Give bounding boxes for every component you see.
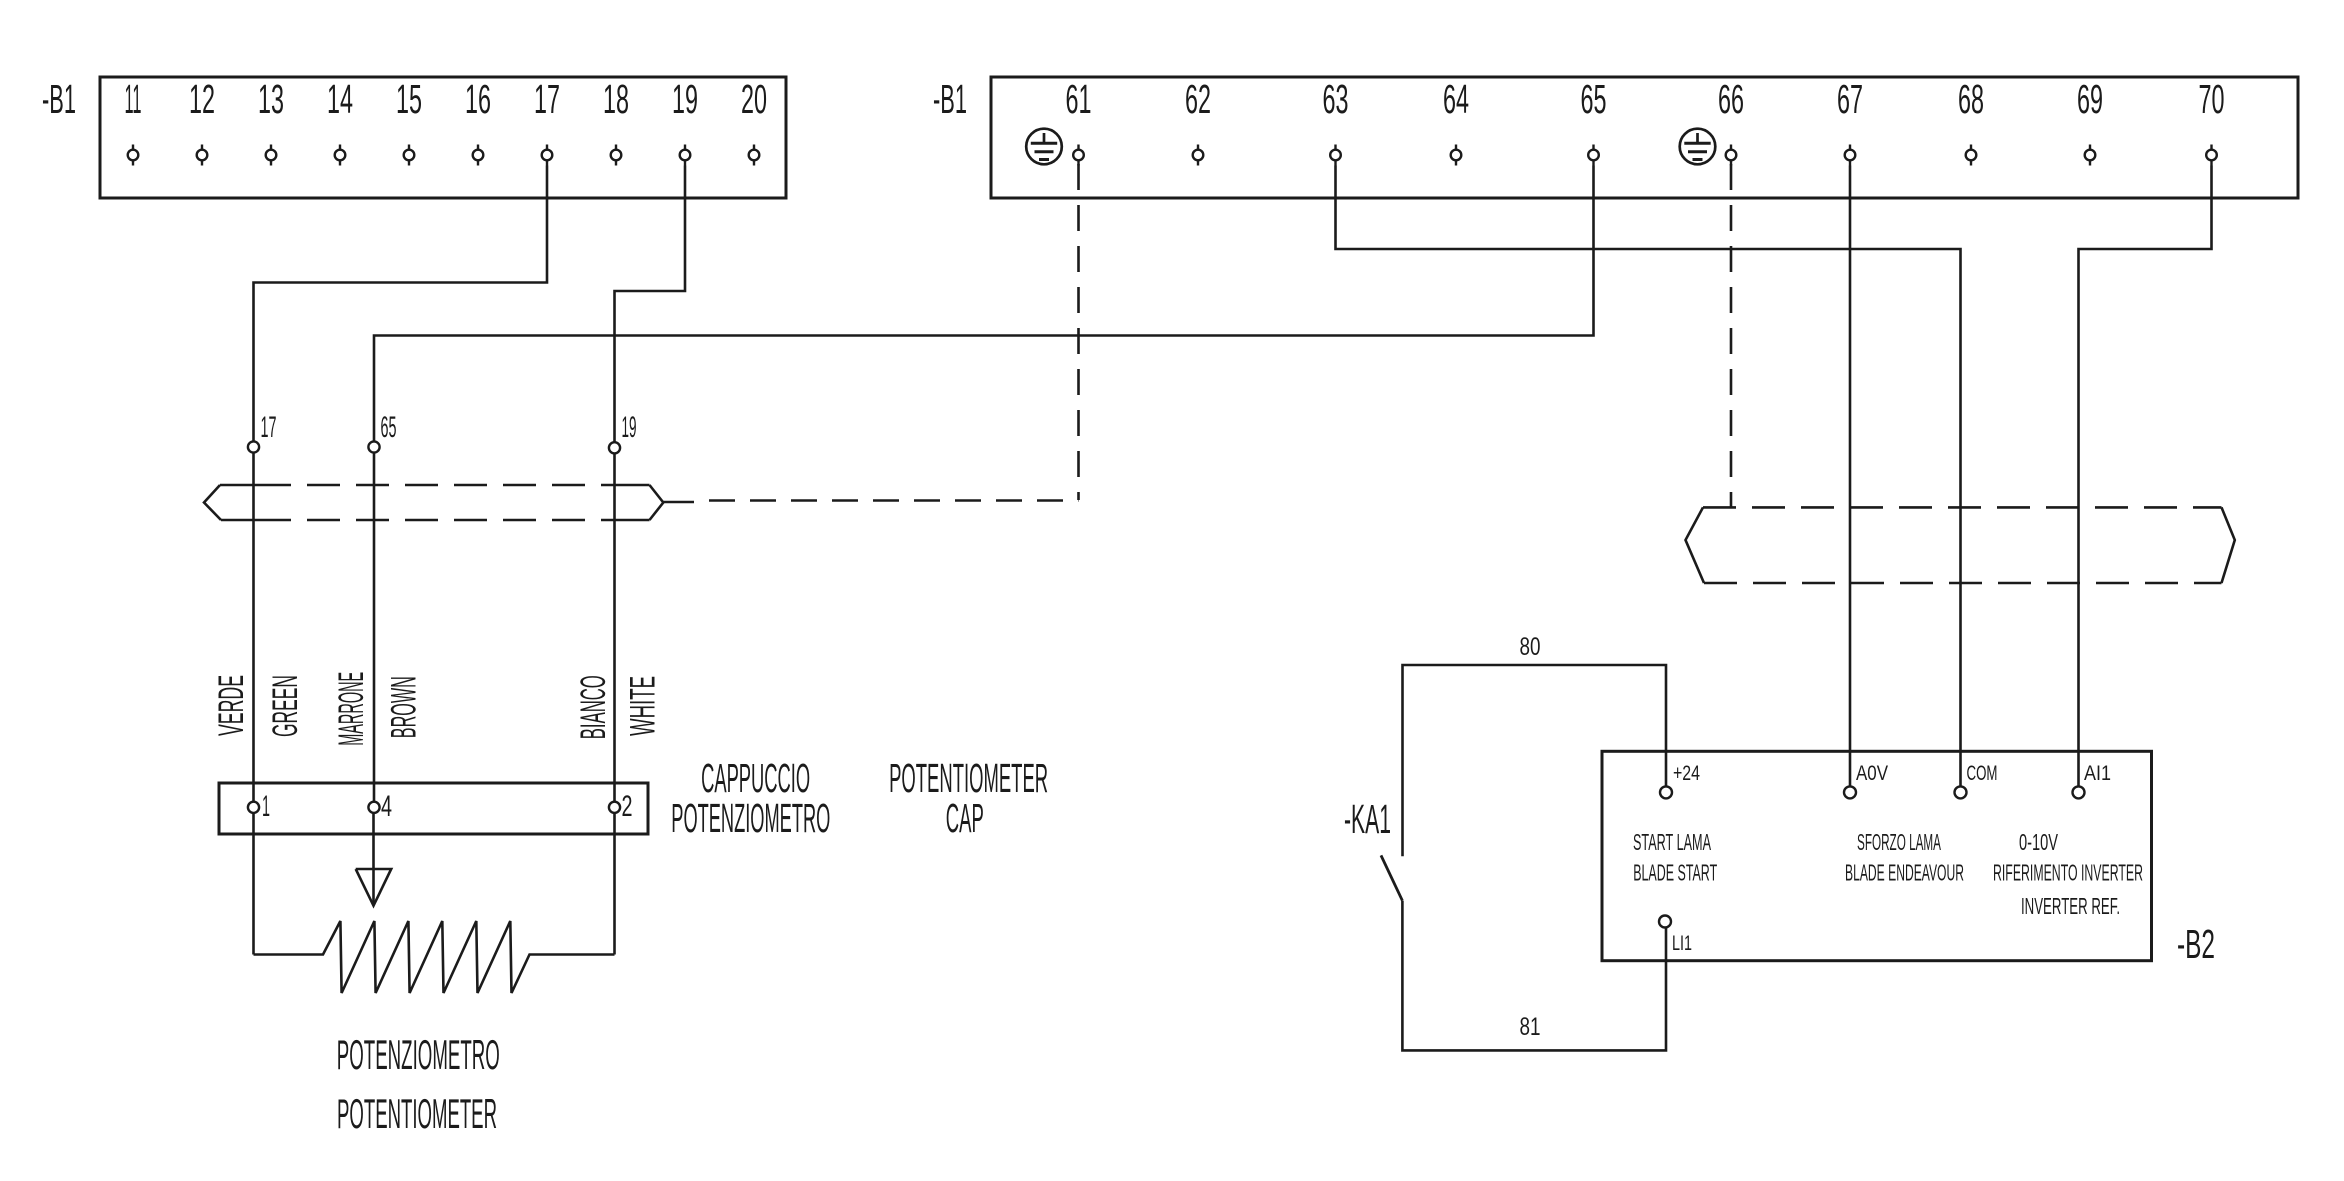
inverter interface module -B2 <box>1602 751 2152 960</box>
svg-text:POTENTIOMETER: POTENTIOMETER <box>337 1090 497 1137</box>
svg-text:VERDE: VERDE <box>212 675 251 736</box>
pin COM <box>1955 786 1967 798</box>
left shield top edge solid start <box>220 484 258 487</box>
pin A0V <box>1844 786 1856 798</box>
svg-text:62: 62 <box>1185 76 1211 122</box>
dashed drain wire from terminal 61 <box>1077 164 1080 500</box>
wiper wire <box>372 814 375 904</box>
svg-text:13: 13 <box>258 76 284 122</box>
terminal 14 point <box>335 145 346 166</box>
svg-text:16: 16 <box>465 76 491 122</box>
right shield left point <box>1686 507 1705 583</box>
wire terminal 63 to COM <box>1336 166 1961 787</box>
terminal 68 point <box>1966 145 1977 166</box>
svg-text:15: 15 <box>396 76 422 122</box>
terminal block -B1 (terminals 61-70) <box>991 77 2298 198</box>
terminal 15 point <box>404 145 415 166</box>
svg-text:COM: COM <box>1967 761 1998 785</box>
svg-text:0-10V: 0-10V <box>2019 829 2058 855</box>
wire terminal 65 (right block) to node 65 <box>374 166 1594 442</box>
left shield bottom edge dashed <box>258 519 612 522</box>
svg-text:12: 12 <box>189 76 215 122</box>
wire terminal 70 to AI1 <box>2079 166 2212 787</box>
shielded cable symbol (potentiometer cable) <box>204 485 663 520</box>
terminal 62 point <box>1193 145 1204 166</box>
terminal 67 point <box>1845 145 1856 166</box>
svg-text:RIFERIMENTO INVERTER: RIFERIMENTO INVERTER <box>1993 860 2143 886</box>
contact -KA1 blade <box>1381 855 1402 900</box>
terminal 64 point <box>1451 145 1462 166</box>
svg-text:81: 81 <box>1520 1013 1541 1041</box>
terminal block -B1 (terminals 11-20) <box>100 77 786 198</box>
svg-text:-B1: -B1 <box>42 76 76 122</box>
terminal 63 point <box>1330 145 1341 166</box>
wire node 19 down to cap pin 2 (white) <box>613 453 616 954</box>
node 65 connection circle <box>368 441 379 452</box>
svg-text:65: 65 <box>381 411 397 444</box>
svg-text:WHITE: WHITE <box>623 676 662 736</box>
svg-text:17: 17 <box>534 76 560 122</box>
terminal 12 point <box>197 145 208 166</box>
resistor zigzag with leads <box>254 921 615 993</box>
cap pin 2 <box>609 802 620 813</box>
svg-text:LI1: LI1 <box>1672 931 1692 955</box>
right shield right point <box>2222 507 2235 583</box>
wire node 17 down to cap pin 1 (green) <box>252 453 255 955</box>
svg-text:20: 20 <box>741 76 767 122</box>
svg-text:BIANCO: BIANCO <box>574 675 613 739</box>
terminal 66 point <box>1726 145 1737 166</box>
svg-text:POTENZIOMETRO: POTENZIOMETRO <box>337 1031 500 1078</box>
terminal 11 point <box>128 145 139 166</box>
svg-text:-B1: -B1 <box>933 76 967 122</box>
terminal 61 point <box>1073 145 1084 166</box>
right shield top edge dashed <box>1703 506 2222 509</box>
svg-text:-B2: -B2 <box>2177 921 2215 967</box>
svg-text:MARRONE: MARRONE <box>332 672 371 746</box>
svg-text:POTENZIOMETRO: POTENZIOMETRO <box>671 795 830 841</box>
ground symbol at terminal 66 <box>1680 129 1716 165</box>
svg-text:66: 66 <box>1718 76 1744 122</box>
terminal 18 point <box>611 145 622 166</box>
svg-text:68: 68 <box>1958 76 1984 122</box>
left shield top edge dashed <box>258 484 612 487</box>
svg-text:2: 2 <box>622 790 633 823</box>
terminal 69 point <box>2085 145 2096 166</box>
node 19 connection circle <box>609 442 620 453</box>
wire node 65 down to cap pin 4 (brown) <box>373 453 376 814</box>
terminal 17 point <box>542 145 553 166</box>
cap pin 1 <box>248 802 259 813</box>
svg-text:19: 19 <box>622 411 637 444</box>
terminal 19 point <box>680 145 691 166</box>
svg-text:19: 19 <box>672 76 698 122</box>
svg-text:14: 14 <box>327 76 353 122</box>
svg-text:BLADE ENDEAVOUR: BLADE ENDEAVOUR <box>1845 860 1964 886</box>
dashed drain wire to left shield <box>694 499 1079 502</box>
wire 80 from contact to +24 <box>1403 665 1667 856</box>
drain wire stub at left shield tip <box>663 501 694 504</box>
cap pin 4 <box>368 802 379 813</box>
svg-text:64: 64 <box>1443 76 1469 122</box>
svg-text:1: 1 <box>262 790 270 823</box>
svg-text:70: 70 <box>2199 76 2225 122</box>
terminal 20 point <box>749 145 760 166</box>
svg-text:START LAMA: START LAMA <box>1633 829 1711 855</box>
right shield bottom edge dashed <box>1704 582 2222 585</box>
svg-text:17: 17 <box>261 411 277 444</box>
svg-text:BLADE START: BLADE START <box>1633 860 1717 886</box>
pin AI1 <box>2073 786 2085 798</box>
svg-text:61: 61 <box>1066 76 1092 122</box>
svg-text:INVERTER REF.: INVERTER REF. <box>2021 893 2120 919</box>
wiper arrow head <box>356 869 392 906</box>
left shield bottom edge solid start <box>221 519 258 522</box>
potentiometer cap connector box <box>219 783 648 834</box>
terminal 16 point <box>473 145 484 166</box>
left shield right point <box>650 485 664 520</box>
dashed drain wire from terminal 66 to right shield <box>1730 164 1733 507</box>
terminal 70 point <box>2206 145 2217 166</box>
svg-text:-KA1: -KA1 <box>1344 796 1391 842</box>
node 17 connection circle <box>248 441 259 452</box>
terminal 65 point <box>1588 145 1599 166</box>
svg-text:67: 67 <box>1837 76 1863 122</box>
svg-text:80: 80 <box>1520 633 1541 661</box>
svg-text:BROWN: BROWN <box>385 676 424 738</box>
wire terminal 17 to node 17 <box>254 166 548 442</box>
pin LI1 <box>1659 916 1671 928</box>
wire 81 from contact to LI1 <box>1402 901 1666 1051</box>
svg-text:69: 69 <box>2077 76 2103 122</box>
pin +24 <box>1660 786 1672 798</box>
svg-text:65: 65 <box>1581 76 1607 122</box>
svg-text:GREEN: GREEN <box>266 675 305 737</box>
left shield left point <box>204 485 221 520</box>
svg-text:AI1: AI1 <box>2084 761 2111 785</box>
terminal 13 point <box>266 145 277 166</box>
wire terminal 19 to node 19 <box>615 166 686 443</box>
svg-text:SFORZO LAMA: SFORZO LAMA <box>1857 829 1941 855</box>
svg-text:18: 18 <box>603 76 629 122</box>
svg-text:11: 11 <box>125 76 142 122</box>
shielded cable symbol (inverter cable) <box>1686 507 2235 583</box>
svg-text:4: 4 <box>381 790 392 823</box>
svg-text:63: 63 <box>1323 76 1349 122</box>
potentiometer wiper arrow <box>356 814 392 906</box>
svg-text:+24: +24 <box>1673 761 1700 785</box>
svg-text:A0V: A0V <box>1856 761 1889 785</box>
svg-text:CAP: CAP <box>946 795 984 841</box>
wire terminal 67 to A0V <box>1849 166 1852 787</box>
ground symbol at terminal 61 <box>1026 129 1062 165</box>
